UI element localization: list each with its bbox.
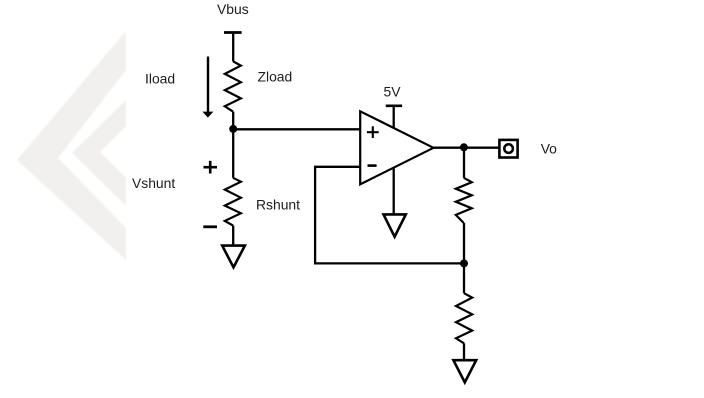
wire node A to op-amp + input bbox=[233, 128, 360, 130]
resistor R2 bbox=[456, 293, 472, 343]
label Rshunt bbox=[256, 196, 300, 212]
label Iload bbox=[145, 71, 175, 87]
resistor Rshunt bbox=[225, 178, 241, 226]
ground (below op-amp) bbox=[384, 214, 406, 236]
wire 5V to op-amp bbox=[393, 106, 395, 128]
power terminal Vbus bbox=[224, 31, 242, 34]
wire Zload to node A bbox=[232, 112, 234, 130]
op-amp U1 bbox=[360, 111, 433, 184]
svg-text:Iload: Iload bbox=[145, 71, 175, 87]
ground (below Rshunt) bbox=[222, 246, 245, 268]
polarity + (Vshunt) bbox=[204, 161, 218, 174]
wire Vbus to Zload bbox=[232, 33, 234, 61]
wire node Vo to R1 bbox=[463, 148, 465, 178]
wire feedback node B to op-amp - input bbox=[315, 167, 464, 264]
svg-text:5V: 5V bbox=[384, 84, 402, 100]
resistor Zload bbox=[225, 61, 241, 111]
wire op-amp output to port Vo bbox=[434, 147, 499, 149]
junction node B bbox=[460, 259, 468, 267]
svg-text:Zload: Zload bbox=[258, 69, 293, 85]
svg-text:Rshunt: Rshunt bbox=[256, 196, 300, 212]
resistor R1 bbox=[456, 178, 472, 223]
ground (bottom right) bbox=[453, 360, 476, 382]
current arrow Iload bbox=[202, 57, 213, 118]
label Zload bbox=[258, 69, 293, 85]
svg-text:Vshunt: Vshunt bbox=[132, 175, 175, 191]
polarity - (Vshunt) bbox=[203, 225, 217, 228]
wire node B to R2 bbox=[463, 263, 465, 293]
wire Rshunt to ground bbox=[232, 226, 234, 246]
net label Vbus bbox=[217, 1, 249, 17]
svg-text:Vbus: Vbus bbox=[217, 1, 249, 17]
wire node A to Rshunt bbox=[232, 129, 234, 178]
svg-text:Vo: Vo bbox=[541, 141, 557, 157]
junction node Vo bbox=[460, 143, 468, 151]
wire R2 to ground bbox=[463, 343, 465, 360]
label 5V bbox=[384, 84, 402, 100]
port Vo bbox=[499, 140, 517, 158]
power terminal 5V bbox=[386, 105, 402, 108]
label Vshunt bbox=[132, 175, 175, 191]
label Vo bbox=[541, 141, 557, 157]
wire R1 to node B bbox=[463, 223, 465, 263]
wire op-amp to ground bbox=[393, 168, 395, 215]
junction node A bbox=[229, 125, 237, 133]
